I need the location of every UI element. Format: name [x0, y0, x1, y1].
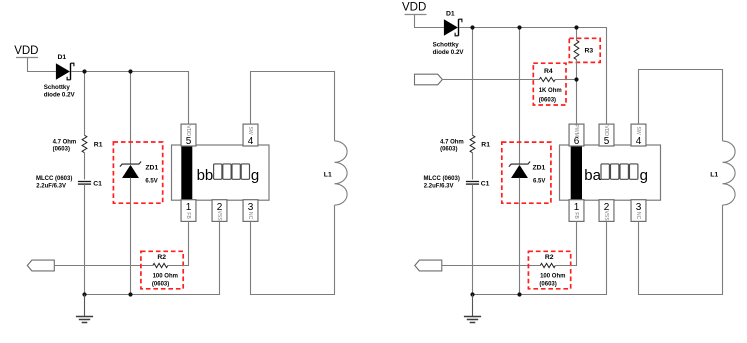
svg-text:NC: NC — [247, 212, 253, 220]
svg-text:ZD1: ZD1 — [533, 165, 546, 172]
svg-text:g: g — [640, 167, 648, 184]
svg-text:D1: D1 — [58, 54, 67, 61]
svg-text:(0603): (0603) — [539, 97, 556, 103]
PWM input port tag (right) — [415, 74, 443, 85]
svg-text:1: 1 — [186, 202, 192, 213]
svg-text:6.5V: 6.5V — [145, 178, 157, 184]
svg-text:2.2uF/6.3V: 2.2uF/6.3V — [424, 183, 454, 189]
resistor R1 (right) — [470, 135, 475, 152]
svg-text:PWM: PWM — [573, 124, 579, 136]
inductor L1 (left) — [335, 141, 348, 205]
highlight box around R2 (right) — [528, 251, 570, 288]
wire pin 4 SW to L1 top (right) — [639, 70, 723, 141]
pin 6 PWM (right IC) — [569, 124, 584, 147]
wire D1 cathode to pin 5 VDD rail (left) — [71, 72, 189, 125]
wire ZD1 anode to ground rail (right) — [519, 178, 521, 295]
svg-text:FB: FB — [573, 212, 579, 219]
svg-text:L1: L1 — [710, 171, 718, 178]
zener diode ZD1 (right) — [509, 162, 530, 179]
IC U1 body (left) — [172, 145, 270, 200]
wire pin 4 SW to L1 top (left) — [251, 72, 335, 141]
highlight box around R2 (left) — [141, 251, 183, 288]
zener diode ZD1 (left) — [120, 162, 141, 179]
junction dot ground-C1 (left) — [82, 292, 86, 296]
svg-text:4: 4 — [248, 136, 254, 147]
ground symbol (right) — [464, 295, 481, 323]
svg-text:100 Ohm: 100 Ohm — [153, 273, 178, 279]
pin 3 NC (right IC) — [631, 200, 646, 222]
wire node to R1 (left) — [84, 72, 86, 136]
wire node to ZD1 (left) — [130, 72, 132, 164]
svg-text:FB: FB — [185, 212, 191, 219]
highlight box around ZD1 (right) — [502, 142, 551, 203]
wire pin 3 to L1 bottom (left) — [251, 205, 335, 294]
svg-text:4.7 Ohm: 4.7 Ohm — [53, 139, 77, 145]
svg-text:4.7 Ohm: 4.7 Ohm — [440, 139, 464, 145]
svg-text:(0603): (0603) — [539, 281, 556, 287]
input port tag (left) — [27, 260, 54, 271]
svg-text:R2: R2 — [157, 254, 166, 261]
IC U1 part number text (left) — [197, 164, 260, 184]
wire port to R4 (right) — [443, 79, 540, 81]
ground rail wire pin 2 VSS (right) — [473, 222, 607, 295]
label 1K Ohm (0603) (right) — [539, 88, 562, 103]
wire ZD1 anode to ground rail (left) — [130, 178, 132, 295]
svg-text:R1: R1 — [481, 141, 490, 148]
pin 1 FB (right IC) — [569, 200, 584, 222]
wire pin 3 to L1 bottom (right) — [639, 205, 723, 294]
IC U1 part number text (right) — [584, 164, 648, 184]
wire C1 to ground rail (right) — [472, 184, 474, 294]
wire VDD to D1 anode (right) — [415, 15, 444, 28]
svg-text:4: 4 — [636, 136, 642, 147]
wire port to R2 (left) — [54, 265, 153, 267]
wire R2 to pin 1 FB (right) — [555, 222, 576, 266]
wire R3 to R4 junction and pin 6 (right) — [576, 60, 578, 125]
svg-text:g: g — [251, 167, 259, 184]
svg-text:6: 6 — [574, 136, 580, 147]
label Schottky diode 0.2V (left) — [44, 84, 76, 99]
svg-text:(0603): (0603) — [152, 281, 169, 287]
input port tag (right) — [415, 260, 442, 271]
wire node to R3 (right) — [576, 28, 578, 41]
ground rail wire pin 2 VSS (left) — [85, 222, 220, 295]
IC U1 body (right) — [560, 145, 661, 200]
diode D1 Schottky (right) — [444, 19, 462, 36]
label Schottky diode 0.2V (right) — [433, 41, 465, 56]
power symbol VDD (right circuit) — [402, 2, 427, 15]
svg-text:ZD1: ZD1 — [145, 165, 158, 172]
junction dot D1-R1 node (left) — [82, 69, 86, 73]
resistor R3 (right) — [574, 40, 579, 59]
ground symbol (left) — [76, 295, 93, 323]
label 100 Ohm (0603) (left) — [152, 273, 178, 287]
svg-text:100 Ohm: 100 Ohm — [540, 273, 565, 279]
svg-text:SW: SW — [247, 126, 253, 134]
resistor R2 (left) — [153, 263, 168, 267]
resistor R2 (right) — [540, 263, 555, 267]
pin 1 FB (left IC) — [181, 200, 196, 222]
wire R1 to C1 (left) — [84, 153, 86, 180]
wire node to R1 (right) — [472, 28, 474, 136]
wire R1 to C1 (right) — [472, 153, 474, 180]
junction dot ZD1 top node (right) — [517, 25, 521, 29]
svg-text:VSS: VSS — [603, 210, 609, 221]
svg-text:bb: bb — [197, 167, 214, 184]
highlight box around R4 (right) — [533, 63, 566, 105]
pin 5 VDD (left IC) — [181, 124, 196, 147]
svg-text:1: 1 — [574, 202, 580, 213]
label 100 Ohm (0603) (right) — [539, 273, 565, 287]
svg-text:C1: C1 — [481, 181, 490, 188]
svg-text:ba: ba — [584, 167, 601, 184]
junction dot R3 top node (right) — [574, 25, 578, 29]
svg-text:1K Ohm: 1K Ohm — [539, 88, 562, 94]
svg-text:L1: L1 — [324, 171, 332, 178]
svg-text:VDD: VDD — [603, 125, 609, 136]
power symbol VDD (left circuit) — [14, 45, 38, 57]
junction dot ZD1 top node (left) — [128, 69, 132, 73]
pin 5 VDD (right IC) — [599, 124, 614, 147]
svg-text:diode 0.2V: diode 0.2V — [433, 49, 465, 56]
svg-text:R4: R4 — [544, 68, 553, 75]
svg-text:Schottky: Schottky — [433, 41, 460, 48]
inductor L1 (right) — [723, 141, 736, 205]
svg-text:NC: NC — [635, 212, 641, 220]
capacitor C1 (right) — [466, 182, 479, 185]
wire D1 cathode to pin 5 VDD rail (right) — [459, 28, 607, 125]
pin 3 NC (left IC) — [243, 200, 258, 222]
svg-text:MLCC (0603): MLCC (0603) — [36, 176, 72, 182]
svg-text:5: 5 — [186, 136, 192, 147]
svg-text:diode 0.2V: diode 0.2V — [44, 92, 76, 99]
capacitor C1 (left) — [78, 182, 91, 185]
svg-text:R3: R3 — [585, 47, 594, 54]
wire C1 to ground rail (left) — [84, 184, 86, 294]
svg-text:(0603): (0603) — [440, 146, 457, 152]
junction dot D1-R1 node (right) — [470, 25, 474, 29]
svg-text:2.2uF/6.3V: 2.2uF/6.3V — [36, 183, 66, 189]
svg-text:(0603): (0603) — [53, 146, 70, 152]
pin 2 VSS (right IC) — [599, 200, 614, 222]
svg-text:VDD: VDD — [402, 2, 426, 14]
svg-text:Schottky: Schottky — [44, 84, 71, 91]
svg-text:R2: R2 — [545, 254, 554, 261]
svg-text:MLCC (0603): MLCC (0603) — [424, 176, 460, 182]
highlight box around R3 (right) — [569, 38, 600, 62]
svg-text:VDD: VDD — [14, 45, 38, 57]
junction dot ground-ZD1 (right) — [517, 292, 521, 296]
label MLCC (0603) 2.2uF/6.3V (left) — [36, 176, 72, 190]
highlight box around ZD1 (left) — [113, 142, 162, 203]
pin 4 SW (right IC) — [631, 124, 646, 147]
svg-text:C1: C1 — [93, 181, 102, 188]
svg-text:VDD: VDD — [185, 125, 191, 136]
svg-text:SW: SW — [635, 126, 641, 134]
label MLCC (0603) 2.2uF/6.3V (right) — [424, 176, 460, 190]
svg-text:VSS: VSS — [216, 210, 222, 221]
junction dot ground-ZD1 (left) — [128, 292, 132, 296]
junction dot R4-R3 node (right) — [574, 77, 578, 81]
resistor R4 (right) — [539, 77, 555, 81]
pin 2 VSS (left IC) — [212, 200, 227, 222]
wire R4 to R3 line (right) — [555, 79, 576, 81]
resistor R1 (left) — [82, 135, 87, 152]
wire VDD to D1 anode (left) — [28, 58, 56, 72]
label 4.7 Ohm (0603) (right) — [440, 139, 464, 152]
svg-text:5: 5 — [604, 136, 610, 147]
svg-text:D1: D1 — [446, 10, 455, 17]
wire node to ZD1 (right) — [519, 28, 521, 164]
pin 4 SW (left IC) — [243, 124, 258, 147]
wire R2 to pin 1 FB (left) — [168, 222, 189, 266]
svg-text:6.5V: 6.5V — [533, 178, 545, 184]
label 4.7 Ohm (0603) (left) — [53, 139, 77, 152]
junction dot ground-C1 (right) — [470, 292, 474, 296]
diode D1 Schottky (left) — [56, 63, 74, 80]
svg-text:R1: R1 — [94, 141, 103, 148]
wire port to R2 (right) — [442, 265, 541, 267]
